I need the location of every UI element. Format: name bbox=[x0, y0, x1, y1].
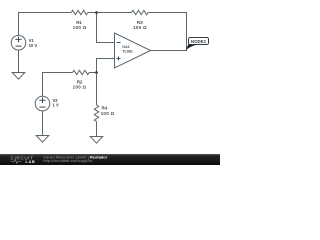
V2 minus symbol bbox=[39, 106, 45, 108]
resistor R3 bbox=[132, 10, 149, 14]
svg-text:1 V: 1 V bbox=[53, 102, 59, 107]
node tag NODE1 flag bbox=[186, 44, 197, 50]
resistor R2 bbox=[73, 70, 90, 74]
node A junction dot bbox=[95, 11, 98, 14]
svg-text:100 Ω: 100 Ω bbox=[133, 25, 147, 30]
op-amp inverting pin symbol bbox=[117, 42, 121, 44]
wire R3 to right corner bbox=[148, 12, 187, 14]
wire op-amp output to corner bbox=[151, 50, 188, 52]
wire R2 to node B bbox=[89, 72, 97, 74]
footer logo waveform bbox=[11, 160, 22, 164]
node B junction dot bbox=[95, 71, 98, 74]
wire node A down to inverting input bbox=[97, 13, 115, 43]
wire node B down to R4 bbox=[96, 73, 98, 106]
op-amp non-inverting pin symbol bbox=[117, 57, 121, 61]
source V2 bbox=[35, 96, 50, 111]
resistor R4 bbox=[94, 105, 98, 122]
V1 minus symbol bbox=[15, 45, 21, 47]
wire R1 to node A to R3 bbox=[88, 12, 132, 14]
wire R4 to ground bbox=[96, 122, 98, 137]
wire non-inverting input to node B bbox=[97, 59, 115, 73]
wire V1 bottom to ground bbox=[18, 50, 20, 73]
svg-text:100 Ω: 100 Ω bbox=[73, 25, 87, 30]
svg-text:LAB: LAB bbox=[26, 159, 36, 164]
svg-text:100 Ω: 100 Ω bbox=[101, 111, 115, 116]
svg-text:http://circuitlab.com/c/pja3x/: http://circuitlab.com/c/pja3x/ bbox=[43, 158, 93, 163]
svg-text:R4: R4 bbox=[102, 105, 108, 110]
svg-text:TL082: TL082 bbox=[122, 50, 132, 54]
source V1 bbox=[11, 35, 26, 50]
footer bar bbox=[0, 154, 220, 165]
svg-text:10 V: 10 V bbox=[29, 43, 38, 48]
node tag NODE1 box bbox=[189, 38, 209, 45]
ground under V1 bbox=[12, 73, 25, 80]
resistor R1 bbox=[71, 10, 88, 14]
wire V2 bottom to ground bbox=[42, 111, 44, 136]
svg-text:100 Ω: 100 Ω bbox=[73, 85, 87, 90]
ground under V2 bbox=[36, 136, 49, 143]
wire right corner down bbox=[186, 13, 188, 51]
wire top rail left bbox=[18, 12, 71, 14]
wire V2 top corner to R2 bbox=[43, 73, 73, 97]
wire V1 top to R1 bbox=[18, 13, 20, 36]
svg-text:NODE1: NODE1 bbox=[191, 39, 207, 44]
op-amp OA1 bbox=[115, 33, 151, 68]
svg-text:R1: R1 bbox=[76, 20, 82, 25]
svg-text:R2: R2 bbox=[77, 79, 83, 84]
svg-text:R3: R3 bbox=[137, 20, 143, 25]
V2 plus symbol bbox=[39, 98, 45, 104]
ground under R4 bbox=[90, 137, 103, 144]
V1 plus symbol bbox=[15, 37, 21, 43]
svg-text:OA1: OA1 bbox=[122, 45, 129, 49]
